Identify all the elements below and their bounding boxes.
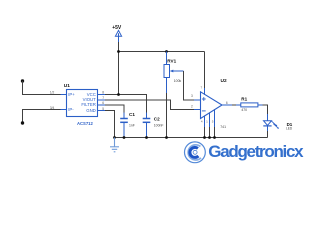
wire RV1 wiper to op-amp pin3 — [184, 71, 195, 100]
node junction GND wire — [113, 136, 116, 139]
wire D1 to rail — [267, 131, 269, 138]
svg-text:7: 7 — [102, 96, 104, 100]
svg-text:3/4: 3/4 — [50, 106, 55, 110]
node junction RV1/rail — [165, 136, 168, 139]
potentiometer RV1 body — [164, 65, 170, 78]
node junction pin5/rail — [213, 136, 216, 139]
op-amp pin7 V+ — [204, 52, 206, 95]
wire IP- from U1 — [23, 110, 61, 124]
svg-text:100k: 100k — [174, 79, 182, 83]
wire IP+ to U1 — [23, 81, 61, 95]
node terminal IP+ input — [21, 79, 24, 82]
op-amp plus sign — [202, 97, 206, 101]
svg-text:2: 2 — [191, 105, 193, 109]
wire FILTER to C1 — [105, 105, 124, 113]
op-amp bottom pin 5 — [214, 110, 216, 138]
svg-text:U2: U2 — [221, 78, 227, 84]
capacitor C2 — [143, 113, 151, 137]
node junction VCC/+5V — [117, 93, 120, 96]
wire +5V stem — [118, 36, 120, 42]
resistor R1 — [241, 103, 258, 107]
svg-text:470: 470 — [241, 108, 247, 112]
ground symbol — [110, 138, 119, 152]
svg-text:IP+: IP+ — [68, 92, 75, 97]
node junction pin1/rail — [208, 136, 211, 139]
node terminal IP- output — [21, 121, 24, 124]
svg-text:ACS712: ACS712 — [77, 121, 93, 126]
svg-text:VIOUT: VIOUT — [83, 97, 97, 102]
svg-text:+5V: +5V — [112, 25, 122, 31]
op-amp bottom pin 1 — [209, 113, 211, 138]
power +5V terminal symbol — [115, 30, 121, 36]
wire ground rail — [115, 137, 268, 139]
svg-text:IP-: IP- — [68, 107, 74, 112]
svg-text:6: 6 — [102, 101, 104, 105]
wire VIOUT to op-amp pin2 — [105, 100, 194, 110]
node junction pin4/rail — [203, 136, 206, 139]
op-amp minus sign — [202, 110, 206, 112]
LED D1 emission arrows — [272, 121, 279, 129]
potentiometer RV1 wiper arrow — [170, 70, 184, 73]
svg-text:741: 741 — [220, 125, 226, 129]
op-amp U2 body — [201, 92, 223, 119]
svg-text:8: 8 — [102, 91, 104, 95]
op-amp U2 input stubs — [194, 100, 201, 110]
op-amp bottom pin 4 — [204, 116, 206, 138]
wire GND to ground rail — [105, 111, 115, 138]
wire RV1 bottom to rail — [166, 93, 168, 138]
svg-text:GND: GND — [86, 108, 96, 113]
node junction rail/stem — [117, 50, 120, 53]
svg-text:RV1: RV1 — [167, 59, 176, 64]
wire op-amp output to R1 — [222, 104, 241, 106]
svg-text:C2: C2 — [154, 117, 160, 122]
IC U1 ACS712 body — [67, 90, 98, 117]
LED D1 — [263, 114, 271, 131]
node junction C2/rail — [145, 136, 148, 139]
logo Gadgetronicx icon — [185, 142, 206, 163]
node junction rail/RV1 — [165, 50, 168, 53]
svg-text:1/2: 1/2 — [50, 91, 55, 95]
potentiometer RV1 leads — [166, 52, 168, 94]
svg-text:100nF: 100nF — [154, 123, 164, 127]
svg-text:R1: R1 — [241, 96, 247, 101]
IC U1 pin stubs — [61, 95, 106, 111]
svg-text:C1: C1 — [129, 112, 135, 117]
svg-text:1nF: 1nF — [129, 123, 135, 127]
wire VCC to C2 — [105, 95, 147, 113]
svg-text:6: 6 — [226, 101, 228, 105]
svg-text:5: 5 — [102, 107, 104, 111]
wire +5V top rail — [119, 51, 205, 53]
svg-text:Gadgetronicx: Gadgetronicx — [208, 142, 304, 161]
svg-text:3: 3 — [191, 94, 193, 98]
node junction C1/rail — [123, 136, 126, 139]
wire R1 to D1 — [263, 105, 268, 114]
svg-text:LED: LED — [286, 127, 293, 131]
capacitor C1 — [120, 113, 128, 137]
svg-text:U1: U1 — [64, 83, 70, 89]
svg-text:FILTER: FILTER — [81, 102, 95, 107]
